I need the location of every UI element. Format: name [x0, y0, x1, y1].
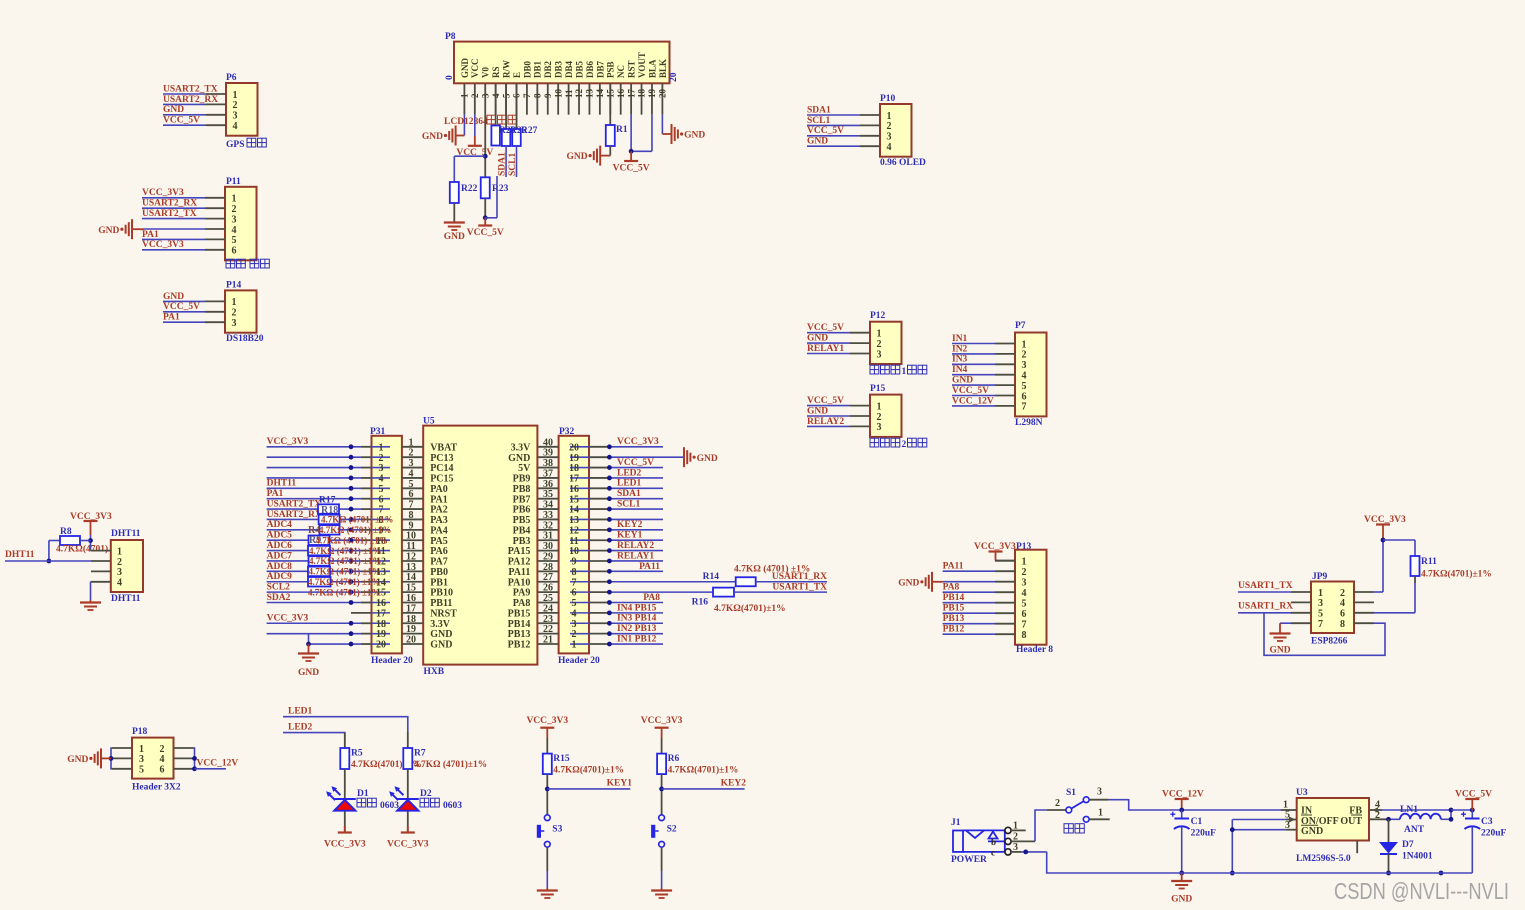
svg-text:5: 5: [379, 484, 384, 495]
P31 pin 19 line and number: [372, 633, 391, 635]
LED symbol at x=407.8: [392, 794, 398, 800]
wire from P32 pin 3: [608, 622, 663, 624]
svg-text:VCC: VCC: [470, 59, 480, 79]
resistor R18: [319, 515, 340, 525]
svg-text:19: 19: [376, 629, 386, 640]
wire from P32 pin 11: [608, 539, 663, 541]
svg-text:LED2: LED2: [617, 468, 642, 478]
svg-text:GND: GND: [684, 131, 705, 141]
svg-text:13: 13: [406, 562, 416, 573]
P31 pin 20 line and number: [372, 643, 391, 645]
wire to P31 pin 13: [267, 570, 361, 572]
power ground at P8 pin20: [671, 124, 673, 144]
svg-text:5: 5: [139, 765, 144, 776]
wire from P32 pin 8: [608, 570, 663, 572]
wire from P32 pin 17: [608, 477, 663, 479]
svg-text:14: 14: [569, 505, 579, 516]
wire / net PB13 to P13 pin 7: [943, 623, 995, 625]
svg-text:2: 2: [572, 629, 577, 640]
P31 pin 1 line and number: [372, 446, 391, 448]
svg-text:GND: GND: [460, 58, 470, 79]
svg-text:37: 37: [543, 468, 553, 479]
svg-text:PC14: PC14: [430, 463, 453, 474]
wire / net PA1 to P11 pin 5: [142, 238, 205, 240]
svg-text:11: 11: [569, 536, 578, 547]
svg-text:2: 2: [232, 204, 237, 215]
wire P8 pin3 (V0) down: [484, 115, 486, 178]
svg-text:ADC6: ADC6: [267, 541, 293, 551]
svg-text:3.3V: 3.3V: [511, 442, 532, 453]
svg-text:0603: 0603: [380, 801, 399, 811]
P32 pin 17 line and number: [570, 477, 589, 479]
JP9 pin8 stub: [1354, 622, 1374, 624]
wire inductor to output node: [1441, 818, 1451, 820]
wire to P31 pin 18: [267, 622, 361, 624]
U5 pin 25 stub right: [537, 602, 558, 604]
P32 pin 5 stub right: [589, 602, 608, 604]
svg-text:DB1: DB1: [533, 60, 543, 78]
P32 pin 12 stub right: [589, 529, 608, 531]
svg-text:IN3: IN3: [952, 355, 968, 365]
wire / net IN3 to P7 pin 3: [952, 363, 995, 365]
wire to P31 pin 9: [267, 529, 361, 531]
svg-text:VCC_3V3: VCC_3V3: [324, 840, 366, 850]
svg-text:4.7KΩ (4701) ±1%: 4.7KΩ (4701) ±1%: [309, 556, 381, 566]
wire to P31 pin 12: [267, 560, 361, 562]
wire LED2: [283, 733, 345, 748]
junction: [47, 559, 52, 564]
junction: [349, 548, 354, 553]
P32 pin 12 line and number: [570, 529, 589, 531]
resistor R14: [736, 577, 756, 586]
wires U3 pin5 and pin3 to ground bus: [1232, 819, 1286, 821]
svg-text:7: 7: [1022, 402, 1027, 413]
wire to P31 pin 10: [267, 539, 361, 541]
svg-text:USART1_RX: USART1_RX: [772, 572, 827, 582]
svg-text:4: 4: [1340, 598, 1345, 609]
U5 pin 2 stub: [402, 456, 423, 458]
svg-text:33: 33: [543, 510, 553, 521]
P32 pin 2 stub right: [589, 633, 608, 635]
svg-text:PA15: PA15: [508, 546, 531, 557]
ground below R22: [444, 221, 465, 223]
svg-text:1: 1: [232, 194, 237, 205]
svg-text:ADC8: ADC8: [267, 562, 293, 572]
U3 FB pin stub with arrow: [1369, 809, 1382, 811]
wire VCC_12V: [195, 768, 227, 770]
wire / net GND to P14 pin 1: [163, 300, 205, 302]
svg-text:4.7KΩ(4701)±1%: 4.7KΩ(4701)±1%: [668, 765, 739, 776]
wire / net VCC_5V to P10 pin 3: [807, 135, 860, 137]
svg-text:1: 1: [877, 401, 882, 412]
svg-text:PSB: PSB: [606, 61, 616, 78]
svg-text:5: 5: [1022, 599, 1027, 610]
ground below S2: [661, 888, 663, 891]
svg-text:4: 4: [232, 225, 237, 236]
svg-text:4.7KΩ (4701) ±1%: 4.7KΩ (4701) ±1%: [319, 525, 391, 535]
svg-text:20: 20: [669, 72, 679, 82]
P32 pin 20 stub right: [589, 446, 608, 448]
IC U5 HXB main header block: [423, 426, 537, 665]
P8 pin 8 stub: [536, 83, 538, 114]
wire P32 to R16: [608, 591, 713, 593]
svg-text:VCC_3V3: VCC_3V3: [526, 716, 568, 726]
svg-text:SDA2: SDA2: [267, 593, 291, 603]
svg-text:D7: D7: [1402, 840, 1414, 850]
svg-text:4: 4: [1022, 588, 1027, 599]
connector P15: [870, 395, 902, 437]
svg-text:P18: P18: [132, 727, 148, 737]
P32 pin 5 line and number: [570, 602, 589, 604]
wire / net USART2_TX to P6 pin 1: [163, 93, 206, 95]
ground below JP9 pin7: [1270, 632, 1291, 634]
wire / net VCC_3V3 to P11 pin 1: [142, 197, 205, 199]
svg-text:GND: GND: [444, 232, 465, 242]
U5 pin 13 stub: [402, 570, 423, 572]
svg-text:C1: C1: [1191, 817, 1203, 827]
wire P8 pin20 to ground: [661, 115, 663, 134]
svg-text:SCL2: SCL2: [267, 583, 290, 593]
svg-text:V0: V0: [481, 67, 491, 78]
DHT11 pin3 stub: [91, 570, 111, 572]
wire / net IN4 to P7 pin 4: [952, 374, 995, 376]
junction: [349, 486, 354, 491]
svg-text:HXB: HXB: [424, 667, 445, 677]
wire C1 to ground bus: [1181, 827, 1183, 873]
svg-text:35: 35: [543, 489, 553, 500]
svg-text:23: 23: [543, 614, 553, 625]
diode D7 1N4001: [1388, 819, 1390, 842]
svg-text:18: 18: [376, 619, 386, 630]
svg-text:17: 17: [406, 603, 416, 614]
svg-text:DS18B20: DS18B20: [226, 334, 264, 344]
svg-text:0: 0: [445, 75, 455, 80]
wire to R22: [454, 155, 485, 157]
wire to P31 pin 16: [267, 602, 361, 604]
svg-text:R17: R17: [319, 496, 336, 506]
P32 pin 13 line and number: [570, 518, 589, 520]
P32 pin 15 line and number: [570, 498, 589, 500]
wire C3 to ground bus: [1471, 827, 1473, 873]
svg-text:4: 4: [572, 608, 577, 619]
svg-text:PB3: PB3: [513, 536, 531, 547]
svg-text:2: 2: [1055, 798, 1060, 809]
P31 pin 12 line and number: [372, 560, 391, 562]
wire USART1_RX to JP9 pin5 and pin8: [1238, 612, 1291, 614]
U5 pin 20 stub: [402, 643, 423, 645]
U5 pin 30 stub right: [537, 550, 558, 552]
wire / net GND to P6 pin 3: [163, 114, 206, 116]
U5 pin 15 stub: [402, 591, 423, 593]
comment relay module 2: [870, 438, 879, 447]
P32 pin 11 line and number: [570, 539, 589, 541]
U5 pin 18 stub: [402, 622, 423, 624]
svg-text:GND: GND: [807, 334, 828, 344]
wire joining pins 17 and 19: [631, 150, 652, 152]
P32 pin 8 stub right: [589, 570, 608, 572]
svg-text:VCC_5V: VCC_5V: [952, 386, 989, 396]
connector P10: [880, 104, 912, 157]
P32 pin 19 line and number: [570, 456, 589, 458]
U5 pin 7 stub: [402, 508, 423, 510]
junction: [349, 569, 354, 574]
wire / net PA1 to P14 pin 3: [163, 321, 205, 323]
U5 pin 27 stub right: [537, 581, 558, 583]
wire / net VCC_5V to P15 pin 1: [807, 405, 850, 407]
resistor R26: [505, 83, 507, 129]
resistor R17: [318, 504, 339, 513]
U5 pin 6 stub: [402, 498, 423, 500]
svg-text:CSDN @NVLI---NVLI: CSDN @NVLI---NVLI: [1334, 878, 1509, 904]
P8 pin 3 stub: [484, 83, 486, 114]
wire from P32 pin 18: [608, 467, 663, 469]
wire junction to R11 top: [1383, 539, 1415, 541]
U5 pin 36 stub right: [537, 487, 558, 489]
svg-text:31: 31: [543, 531, 553, 542]
svg-text:GPS: GPS: [226, 140, 244, 150]
wire from P32 pin 5: [608, 602, 663, 604]
svg-text:VCC_3V3: VCC_3V3: [617, 437, 659, 447]
wire to P31 pin 14: [267, 581, 361, 583]
resistor network row 12: [309, 556, 330, 566]
wire LED1: [283, 717, 408, 732]
wire P31 pin19 to ground corner: [308, 634, 310, 644]
svg-text:4.7KΩ(4701)±1%: 4.7KΩ(4701)±1%: [553, 765, 624, 776]
svg-text:PA10: PA10: [508, 577, 531, 588]
junction: [349, 600, 354, 605]
svg-text:1: 1: [233, 90, 238, 101]
svg-text:4.7KΩ (4701) ±1%: 4.7KΩ (4701) ±1%: [308, 577, 380, 587]
svg-text:2: 2: [887, 121, 892, 132]
svg-text:OUT: OUT: [1340, 816, 1362, 827]
P32 pin 10 line and number: [570, 550, 589, 552]
P31 pin 11 line and number: [372, 550, 391, 552]
svg-text:17: 17: [569, 474, 579, 485]
svg-text:4: 4: [1022, 371, 1027, 382]
resistor R16: [713, 588, 734, 597]
svg-text:20: 20: [406, 635, 416, 646]
JP9 pin7 wire to ground: [1291, 622, 1311, 624]
svg-text:17: 17: [376, 608, 386, 619]
svg-text:BLA: BLA: [647, 59, 657, 78]
svg-text:29: 29: [543, 551, 553, 562]
svg-text:LED2: LED2: [288, 723, 313, 733]
svg-text:P8: P8: [445, 32, 456, 42]
svg-text:27: 27: [543, 572, 553, 583]
wire R14 to USART1_RX: [756, 581, 827, 583]
resistor R7: [407, 732, 409, 748]
svg-text:13: 13: [585, 89, 595, 99]
comment fingerprint module: [226, 259, 235, 268]
svg-text:7: 7: [1022, 620, 1027, 631]
power VCC_3V3 below D1: [338, 831, 352, 833]
svg-text:2: 2: [877, 339, 882, 350]
U3 ON/OFF pin stub with arrow: [1286, 819, 1297, 821]
svg-text:8: 8: [1340, 619, 1345, 630]
junction: [88, 538, 93, 543]
svg-text:3: 3: [887, 132, 892, 143]
junction: [1470, 808, 1475, 813]
U5 pin 3 stub: [402, 467, 423, 469]
svg-text:GND: GND: [430, 640, 452, 651]
P32 pin 6 line and number: [570, 591, 589, 593]
svg-text:2: 2: [1022, 350, 1027, 361]
svg-text:5: 5: [409, 479, 414, 490]
connector P18 Header 3X2: [132, 738, 174, 779]
svg-text:DB7: DB7: [595, 60, 605, 78]
power VCC_5V at P8 pin2: [468, 145, 482, 147]
svg-text:PA1: PA1: [430, 494, 448, 505]
svg-text:GND: GND: [1269, 646, 1290, 656]
wire to P31 pin 15: [267, 591, 361, 593]
junction: [659, 787, 664, 792]
svg-text:PB1: PB1: [430, 577, 448, 588]
wire / net GND to P12 pin 2: [807, 342, 850, 344]
svg-text:D1: D1: [357, 789, 369, 799]
svg-text:POWER: POWER: [951, 855, 987, 865]
svg-text:R5: R5: [351, 749, 363, 759]
svg-text:GND: GND: [1171, 895, 1192, 905]
svg-text:4.7KΩ (4701) ±1%: 4.7KΩ (4701) ±1%: [321, 515, 393, 525]
junction: [1381, 538, 1386, 543]
wire R11 bottom to JP9 pin6: [1414, 576, 1416, 583]
svg-text:U3: U3: [1296, 788, 1308, 798]
svg-text:NC: NC: [616, 65, 626, 78]
power ground at P8 pin1: [455, 126, 457, 146]
svg-text:6: 6: [1340, 609, 1345, 620]
junction: [349, 538, 354, 543]
P8 pin 19 stub: [651, 83, 653, 114]
svg-text:16: 16: [616, 89, 626, 99]
svg-text:PB11: PB11: [430, 598, 452, 609]
power ground right of P32: [683, 447, 685, 467]
svg-text:VCC_5V: VCC_5V: [467, 228, 504, 238]
svg-text:2: 2: [160, 744, 165, 755]
switch S3: [544, 815, 550, 821]
wire R15 to switch: [546, 774, 548, 815]
svg-text:220uF: 220uF: [1191, 829, 1217, 839]
svg-text:DB3: DB3: [554, 60, 564, 78]
wire / net GND to P7 pin 5: [952, 384, 995, 386]
svg-text:16: 16: [569, 484, 579, 495]
svg-text:PB8: PB8: [513, 484, 531, 495]
wire from P32 pin 14: [608, 508, 663, 510]
svg-text:3: 3: [1022, 578, 1027, 589]
wire R23 to VCC_5V junction: [484, 198, 486, 218]
svg-text:3: 3: [1022, 360, 1027, 371]
P8 pin 20 stub: [661, 83, 663, 114]
P8 pin 16 stub: [620, 83, 622, 114]
svg-text:PA6: PA6: [430, 546, 448, 557]
svg-text:USART1_TX: USART1_TX: [772, 583, 827, 593]
power VCC_3V3 below D2: [401, 831, 415, 833]
wire USART1_TX to JP9 pin1: [1238, 591, 1291, 593]
junction: [349, 476, 354, 481]
wire P32 to R14: [608, 581, 736, 583]
svg-text:24: 24: [543, 603, 553, 614]
svg-text:PA0: PA0: [430, 484, 448, 495]
svg-text:16: 16: [376, 598, 386, 609]
wire OUT to diode and inductor: [1390, 818, 1400, 820]
svg-text:ADC7: ADC7: [267, 551, 293, 561]
P31 pin 2 line and number: [372, 456, 391, 458]
svg-text:ADC5: ADC5: [267, 531, 293, 541]
svg-text:VCC_12V: VCC_12V: [197, 759, 239, 769]
U5 pin 16 stub: [402, 602, 423, 604]
svg-text:3: 3: [409, 458, 414, 469]
svg-text:KEY1: KEY1: [617, 531, 643, 541]
wire / net IN1 to P7 pin 1: [952, 343, 995, 345]
wire to P13 pin 3: [943, 581, 995, 583]
svg-text:6: 6: [232, 246, 237, 257]
svg-text:R16: R16: [692, 598, 709, 608]
svg-text:PA7: PA7: [430, 557, 448, 568]
svg-text:GND: GND: [298, 668, 319, 678]
connector JP9 ESP8266: [1311, 582, 1354, 634]
resistor network row 11: [308, 546, 330, 556]
svg-text:4: 4: [160, 754, 165, 765]
svg-text:1: 1: [409, 437, 414, 448]
U5 pin 24 stub right: [537, 612, 558, 614]
svg-text:USART2_RX: USART2_RX: [163, 95, 218, 105]
P8 pin 1 stub: [463, 83, 465, 114]
wire to P31 pin 3: [267, 467, 361, 469]
connector P14: [225, 290, 257, 332]
P8 pin 15 stub: [609, 83, 611, 114]
svg-text:USART2_TX: USART2_TX: [163, 84, 218, 94]
svg-text:P14: P14: [226, 281, 242, 291]
svg-text:21: 21: [543, 635, 553, 646]
svg-text:PA11: PA11: [508, 567, 530, 578]
J1 pin3 wire to ground bus: [1011, 851, 1022, 853]
svg-text:1: 1: [887, 111, 892, 122]
J1 pin2 wire up to switch S1: [1011, 840, 1035, 842]
wire R16 to USART1_TX: [734, 591, 827, 593]
svg-text:KEY1: KEY1: [607, 779, 633, 789]
svg-text:6: 6: [160, 765, 165, 776]
P32 pin 7 line and number: [570, 581, 589, 583]
svg-text:1: 1: [1098, 808, 1103, 819]
junction: [1449, 808, 1454, 813]
junction: [349, 559, 354, 564]
P8 pin 13 stub: [588, 83, 590, 114]
svg-text:GND: GND: [163, 105, 184, 115]
P32 pin 6 stub right: [589, 591, 608, 593]
U5 pin 26 stub right: [537, 591, 558, 593]
svg-text:7: 7: [572, 577, 577, 588]
P32 pin 13 stub right: [589, 518, 608, 520]
svg-text:USART2_TX: USART2_TX: [267, 499, 322, 509]
wire FB to output node: [1382, 809, 1451, 811]
svg-text:25: 25: [543, 593, 553, 604]
svg-text:RELAY1: RELAY1: [617, 551, 654, 561]
svg-text:J1: J1: [951, 818, 961, 828]
junction: [1023, 850, 1028, 855]
svg-text:USART2_RX: USART2_RX: [142, 199, 197, 209]
svg-text:PA8: PA8: [513, 598, 531, 609]
svg-text:GND: GND: [898, 578, 919, 588]
svg-text:11: 11: [406, 541, 415, 552]
svg-text:USART1_RX: USART1_RX: [1238, 602, 1293, 612]
P31 pin 17 line and number: [372, 612, 391, 614]
wire bus right of P18: [193, 748, 196, 769]
resistor network row 13: [308, 567, 330, 577]
svg-text:VCC_5V: VCC_5V: [807, 396, 844, 406]
svg-text:3: 3: [379, 463, 384, 474]
svg-text:14: 14: [595, 89, 605, 99]
svg-text:9: 9: [572, 557, 577, 568]
wire / net PA11 to P13 pin 2: [943, 570, 995, 572]
